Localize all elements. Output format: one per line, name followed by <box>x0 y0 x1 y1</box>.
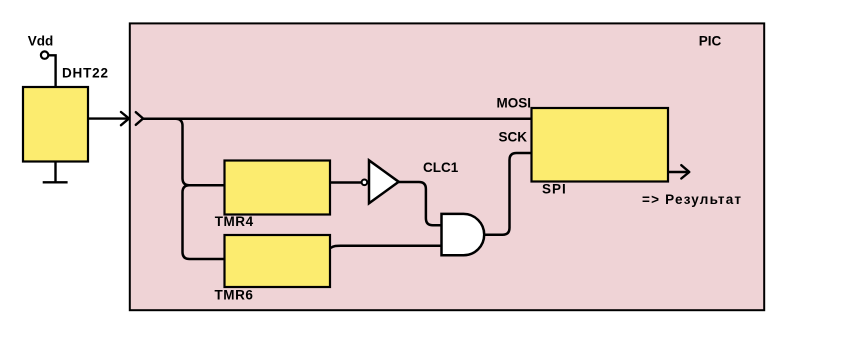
wire branch from top bus down to TMR4 input <box>176 119 225 186</box>
peripheral SPI <box>532 108 669 182</box>
inverter bubble <box>362 180 368 186</box>
svg-text:PIC: PIC <box>699 33 722 48</box>
wire branch down to TMR6 input <box>183 185 225 259</box>
input port chevron <box>136 112 143 125</box>
svg-text:CLC1: CLC1 <box>423 160 459 175</box>
timer TMR4 <box>225 161 331 215</box>
svg-text:SCK: SCK <box>499 129 528 144</box>
ground <box>43 162 68 183</box>
wire AND gate output up to SPI SCK <box>484 153 531 235</box>
buffer CLC1 triangle <box>369 160 399 203</box>
sensor DHT22 <box>23 87 88 162</box>
svg-text:MOSI: MOSI <box>496 96 531 111</box>
power terminal Vdd <box>41 51 48 58</box>
wire TMR4 output to inverter bubble <box>330 181 362 184</box>
svg-text:TMR6: TMR6 <box>215 288 254 303</box>
svg-text:Vdd: Vdd <box>28 34 54 49</box>
arrowhead into PIC <box>121 112 129 125</box>
arrowhead result <box>681 165 689 178</box>
svg-text:DHT22: DHT22 <box>62 66 109 81</box>
wire chevron to SPI MOSI (top bus) <box>143 117 531 120</box>
svg-text:=> Результат: => Результат <box>642 192 742 207</box>
svg-text:SPI: SPI <box>542 181 567 196</box>
wire CLC1 output down to AND gate top input <box>399 182 442 225</box>
wire SPI output <box>668 171 688 173</box>
wire DHT22 output to PIC <box>88 117 128 119</box>
AND gate CLC <box>442 214 485 255</box>
PIC microcontroller boundary box <box>130 23 764 310</box>
wire Vdd terminal to DHT22 top <box>49 55 56 87</box>
wire TMR6 output to AND gate bottom input <box>331 246 442 248</box>
svg-text:TMR4: TMR4 <box>215 214 254 229</box>
timer TMR6 <box>225 235 331 287</box>
